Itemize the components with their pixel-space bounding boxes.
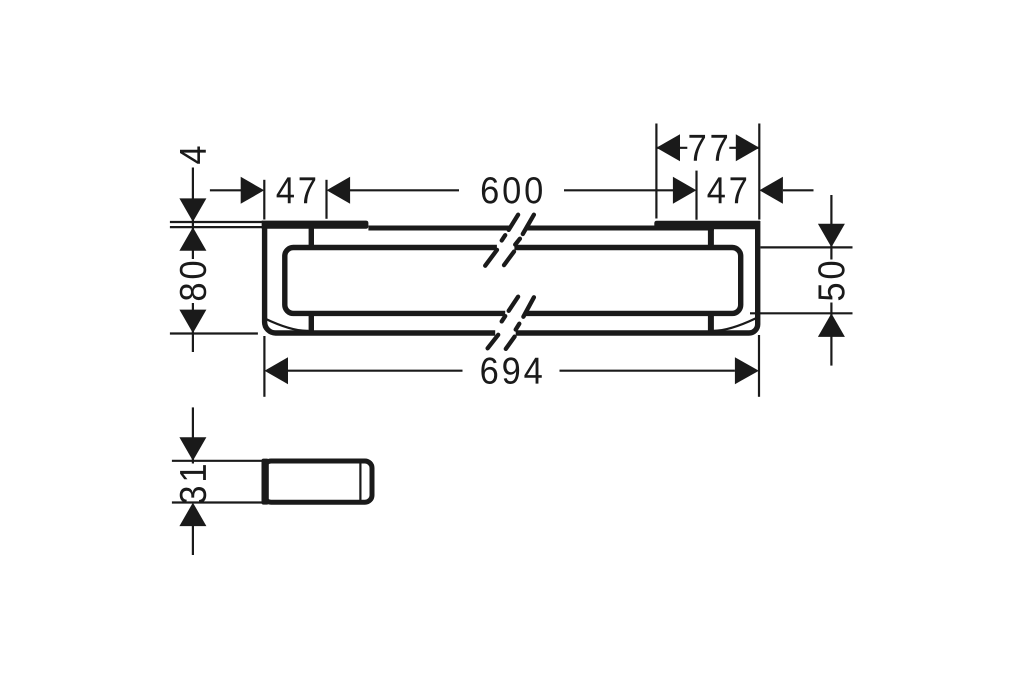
dimension 4 text [180, 146, 206, 163]
plate thickness line lower [170, 226, 263, 228]
bar tube inner contour [285, 248, 741, 314]
dimension 31 text [180, 465, 207, 503]
dimension 47 left tick B [325, 180, 327, 219]
dimension 50 vertical line lower [830, 303, 832, 366]
dimension 600 arrow right [673, 177, 697, 204]
dimension 77 arrow right [736, 134, 760, 161]
dimension 77 extension line left [655, 124, 657, 219]
dimension 50 text [818, 262, 845, 300]
towel bar outer profile [265, 221, 758, 333]
dimension 77 line [656, 147, 759, 149]
dimension 47 left tick A [263, 180, 265, 220]
end cap seam left [265, 319, 309, 331]
dimension 50 extension line bottom [750, 312, 853, 314]
dimension 4-80 vertical line upper [192, 168, 194, 260]
dimension 47 right tail line [783, 189, 814, 191]
dimension 50 arrow up [818, 313, 845, 337]
side view outer body [264, 461, 372, 502]
dimension 47 right tick C [695, 171, 697, 220]
dimension 694 text [481, 357, 541, 384]
dimension 694 extension line right [758, 335, 760, 397]
dimension 600 text [482, 177, 542, 204]
dimension 4-80 vertical line lower [192, 303, 194, 352]
dimension 694 arrow left [265, 357, 289, 384]
dimension 50 arrow down [818, 224, 845, 248]
break mark bottom [488, 297, 534, 349]
left bracket stem [309, 229, 314, 334]
dimension 4 arrow down [179, 198, 206, 222]
dimension 694 line [288, 370, 735, 372]
dimension 47 left text [277, 177, 316, 203]
bar top edge line [368, 226, 714, 231]
dimension 31 extension line top [172, 460, 262, 462]
dimension 31 vertical line upper [192, 407, 194, 463]
dimension 31 vertical line lower [192, 505, 194, 556]
side view cap seam [359, 462, 361, 502]
wall plate right [654, 221, 760, 230]
end cap seam right [712, 319, 756, 331]
plate thickness line upper [170, 221, 263, 223]
dimension 47 right text [708, 177, 747, 203]
dimension 50 vertical line upper [830, 195, 832, 260]
dimension 50 extension line top [761, 246, 853, 248]
dimension 47 right arrow [759, 177, 783, 204]
right bracket stem [708, 229, 714, 333]
dimension 600 arrow left [327, 177, 351, 204]
dimension 694 extension line left [263, 336, 265, 397]
dimension 47 left arrow [241, 177, 265, 204]
dimension 77 extension line right [758, 124, 760, 220]
dimension 80 arrow up [179, 227, 206, 251]
dimension 80 arrow down [179, 310, 206, 334]
dimension 77 text [689, 135, 727, 161]
dimension 31 extension line bottom [172, 501, 262, 503]
break mark top [485, 215, 534, 266]
wall plate left [262, 221, 369, 229]
dimension 80 extension line bottom [170, 332, 258, 334]
dimension 31 arrow down [179, 437, 206, 461]
dimension 80 text [180, 262, 207, 300]
dimension 694 arrow right [735, 357, 759, 384]
dimension 47 left tail line [210, 189, 243, 191]
side view wall plate block [262, 459, 269, 505]
dimension 77 arrow left [656, 134, 680, 161]
dimension 600 line [350, 189, 673, 191]
dimension 31 arrow up [179, 503, 206, 526]
